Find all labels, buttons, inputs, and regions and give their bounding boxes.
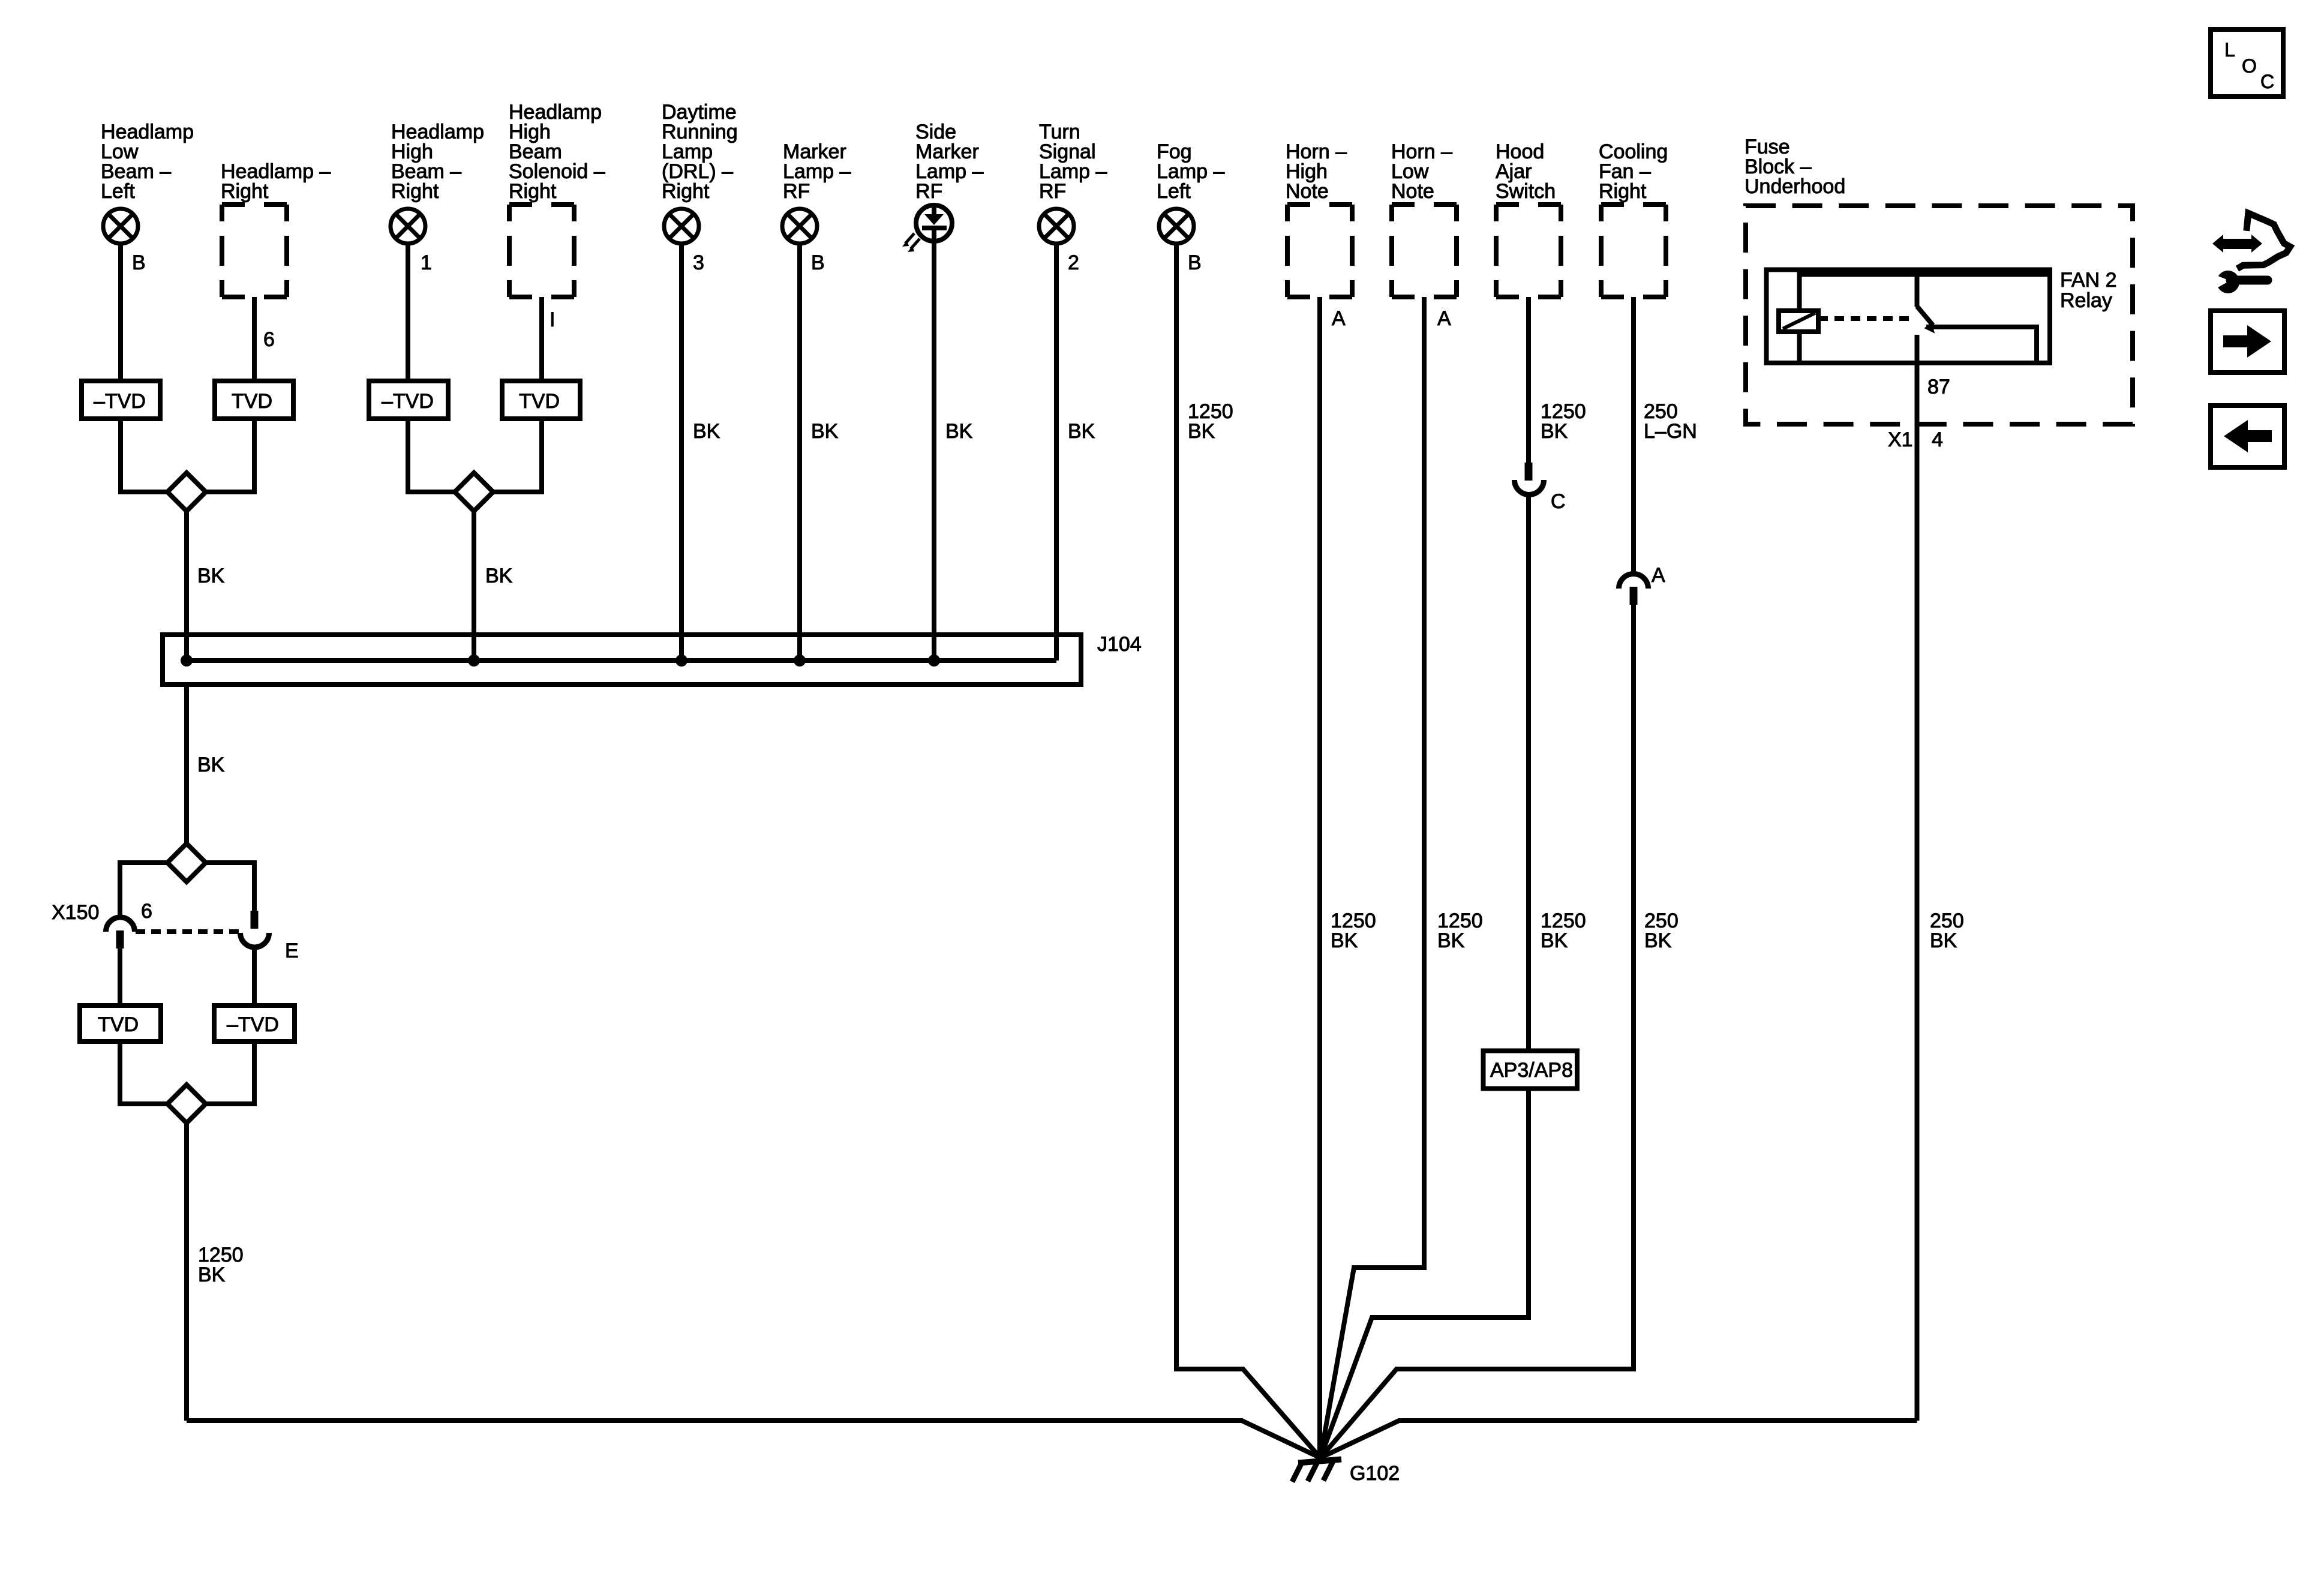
svg-text:C: C [2260, 71, 2274, 92]
wire: diamond 3 left branch to X150 [120, 863, 167, 917]
wire: TVD2 to merge diamond 1 [206, 419, 254, 492]
connector box: Headlamp High Beam Solenoid - Right (dashed) [509, 205, 574, 297]
svg-text:A: A [1332, 307, 1346, 330]
wire label 1250 BK (horn low) [1437, 909, 1483, 952]
wire: high beam to TVD [406, 244, 410, 381]
label: Headlamp High Beam - Right [391, 121, 484, 203]
wire: headlamp low beam to TVD [118, 244, 123, 381]
svg-text:BK: BK [1437, 929, 1465, 952]
svg-text:Left: Left [1157, 180, 1191, 203]
svg-text:L: L [2224, 39, 2235, 61]
wire: headlamp right to TVD [252, 297, 257, 381]
lamp: Fog Lamp - Left [1159, 209, 1194, 244]
connector box: Headlamp - Right (dashed) [222, 205, 287, 297]
svg-text:BK: BK [1331, 929, 1358, 952]
svg-text:Relay: Relay [2060, 289, 2112, 312]
connector X150 dashed mating line [136, 929, 240, 934]
svg-text:O: O [2242, 55, 2257, 77]
wire label 1250 BK (hood ajar upper) [1541, 400, 1586, 443]
svg-text:C: C [1551, 490, 1566, 513]
svg-text:BK: BK [1068, 420, 1095, 443]
svg-text:TVD: TVD [232, 390, 272, 413]
splice box AP3/AP8 [1484, 1051, 1578, 1089]
label: Headlamp High Beam Solenoid - Right [509, 101, 605, 203]
svg-text:B: B [132, 251, 146, 274]
svg-text:–TVD: –TVD [227, 1013, 279, 1036]
svg-text:A: A [1652, 564, 1665, 587]
wire: TVD1 to merge diamond 1 [121, 419, 167, 492]
svg-text:BK: BK [197, 754, 225, 776]
label: Fog Lamp - Left [1157, 140, 1224, 203]
svg-text:Note: Note [1391, 180, 1434, 203]
wire: diamond 2 to J104 [472, 511, 476, 661]
wire: relay pin 87 down to ground run [1915, 335, 1920, 1421]
wire: bottom ground run left segment [187, 1421, 1320, 1458]
svg-text:Underhood: Underhood [1744, 175, 1845, 198]
wire: X150 left to lower TVD [118, 948, 122, 1005]
wire: bottom ground run right segment [1320, 1421, 1917, 1458]
connector box: Horn - High Note (dashed) [1287, 205, 1352, 297]
inline connector socket arc (cooling fan) [1619, 574, 1649, 589]
svg-text:RF: RF [783, 180, 810, 203]
relay actuation dashed link [1818, 316, 1912, 321]
svg-text:–TVD: –TVD [94, 390, 146, 413]
svg-text:J104: J104 [1097, 633, 1142, 656]
wire: J104 to diamond 3 [184, 685, 189, 843]
label: Headlamp Low Beam - Left [101, 121, 194, 203]
svg-text:Right: Right [662, 180, 710, 203]
wire: side marker to J104 [932, 241, 936, 661]
wire label 1250 BK (left trunk) [198, 1244, 244, 1286]
TVD box (TVD) solenoid [502, 381, 580, 419]
svg-text:Note: Note [1286, 180, 1329, 203]
label: Daytime Running Lamp (DRL) - Right [662, 101, 738, 203]
svg-text:87: 87 [1927, 376, 1950, 398]
wire: solenoid to TVD [539, 297, 544, 381]
connector box: Cooling Fan - Right (dashed) [1601, 205, 1666, 297]
svg-text:1: 1 [421, 251, 432, 274]
svg-text:6: 6 [141, 900, 152, 923]
svg-text:B: B [1188, 251, 1202, 274]
relay FAN 2 outer box [1767, 270, 2050, 364]
svg-text:2: 2 [1068, 251, 1079, 274]
wire: turn signal to J104 bus [1054, 244, 1059, 661]
svg-text:I: I [550, 308, 555, 331]
fuse block underhood dashed outline [1746, 206, 2133, 424]
splice pack J104 bus bar [187, 658, 1056, 663]
TVD box (-TVD) lower right [214, 1005, 295, 1041]
relay coil box [1779, 311, 1818, 332]
connector box: Horn - Low Note (dashed) [1392, 205, 1457, 297]
wire: horn low note to G102 [1320, 297, 1424, 1458]
inline connector socket arc (hood ajar) [1515, 480, 1544, 495]
inline connector pin (cooling fan) [1630, 587, 1638, 605]
wire label 1250 BK (horn high) [1331, 909, 1376, 952]
svg-text:RF: RF [1039, 180, 1066, 203]
svg-text:BK: BK [693, 420, 720, 443]
icon: forward arrow box [2211, 311, 2284, 373]
wire: TVD4 to merge diamond 2 [493, 419, 542, 492]
svg-text:AP3/AP8: AP3/AP8 [1490, 1059, 1573, 1082]
relay inner top line [1800, 272, 2047, 277]
label: Marker Lamp - RF [783, 140, 851, 203]
svg-text:FAN 2: FAN 2 [2060, 269, 2116, 292]
svg-text:G102: G102 [1350, 1462, 1400, 1485]
relay switch blade arrowhead [1924, 322, 1935, 334]
lamp: Headlamp High Beam - Right [391, 209, 425, 244]
wire: horn high note to G102 [1317, 297, 1322, 1458]
label: Horn - Low Note [1391, 140, 1452, 203]
svg-text:X1: X1 [1888, 428, 1913, 451]
icon: back arrow box [2211, 406, 2284, 467]
svg-text:BK: BK [485, 565, 513, 587]
icon: harness routing with wrench [2212, 213, 2290, 293]
svg-text:L–GN: L–GN [1644, 420, 1697, 443]
relay coil diagonal [1783, 313, 1815, 329]
wire: marker lamp to J104 [797, 244, 802, 661]
label FAN 2 Relay [2060, 269, 2116, 312]
junction dot (marker) [794, 655, 806, 667]
connector box: Hood Ajar Switch (dashed) [1496, 205, 1561, 297]
svg-text:Left: Left [101, 180, 135, 203]
junction dot (DRL) [675, 655, 687, 667]
svg-text:BK: BK [1541, 929, 1568, 952]
wire: X150 right to lower TVD [252, 947, 257, 1005]
merge diamond 2 (high beam pair) [455, 473, 493, 511]
svg-text:TVD: TVD [519, 390, 560, 413]
wire: diamond 4 down to ground run [184, 1123, 189, 1421]
svg-text:BK: BK [197, 565, 225, 587]
connector X150 left: pin [116, 930, 124, 948]
svg-text:Right: Right [221, 180, 269, 203]
svg-text:B: B [811, 251, 825, 274]
junction dot (trunk 2) [468, 655, 480, 667]
svg-text:E: E [285, 939, 299, 962]
merge diamond 4 [167, 1085, 206, 1123]
label: Hood Ajar Switch [1496, 140, 1556, 203]
relay contact line (pin 87) [1926, 327, 2037, 363]
label: Headlamp - Right [221, 160, 331, 203]
svg-text:TVD: TVD [98, 1013, 139, 1036]
svg-text:Right: Right [1599, 180, 1647, 203]
wire: diamond 1 to J104 [184, 511, 189, 661]
merge diamond 1 (headlamp pair) [167, 473, 206, 511]
splice pack J104 outer box [163, 635, 1081, 685]
junction dot (trunk 1) [181, 655, 193, 667]
ground G102 symbol [1292, 1460, 1341, 1482]
label: Cooling Fan - Right [1599, 140, 1668, 203]
lamp: Daytime Running Lamp (DRL) - Right [664, 209, 699, 244]
svg-text:6: 6 [263, 328, 275, 351]
wire label 1250 BK (fog lamp) [1188, 400, 1233, 443]
inline connector pin (hood ajar) [1525, 463, 1533, 481]
LED lamp: Side Marker Lamp - RF [916, 205, 952, 241]
svg-text:Switch: Switch [1496, 180, 1556, 203]
wire: TVD3 to merge diamond 2 [408, 419, 455, 492]
lamp: Turn Signal Lamp - RF [1039, 209, 1074, 244]
wire: hood ajar switch upper segment [1526, 297, 1531, 463]
svg-text:Right: Right [391, 180, 439, 203]
wire label 250 L-GN (cooling fan upper) [1644, 400, 1697, 443]
split diamond 3 [167, 843, 206, 882]
connector X150 left: socket arc [106, 917, 135, 932]
svg-text:A: A [1437, 307, 1451, 330]
TVD box (-TVD) headlamp low beam [82, 381, 160, 419]
TVD box (-TVD) high beam [369, 381, 448, 419]
relay switch pole vertical [1915, 270, 1920, 307]
wire label 1250 BK (hood ajar lower) [1541, 909, 1586, 952]
relay coil feed line (pin 85/86 vertical) [1797, 272, 1802, 363]
lamp: Marker Lamp - RF [782, 209, 817, 244]
wire: cooling fan upper segment [1631, 297, 1636, 575]
LOC reference box [2211, 29, 2283, 97]
svg-text:BK: BK [945, 420, 973, 443]
label: Turn Signal Lamp - RF [1039, 121, 1107, 203]
svg-text:BK: BK [1541, 420, 1568, 443]
wire label 250 BK (cooling fan lower) [1644, 909, 1679, 952]
connector X150 right: socket arc [241, 933, 269, 947]
wire: lower TVD left to diamond 4 [120, 1041, 167, 1104]
label: Side Marker Lamp - RF [915, 121, 983, 203]
label: Fuse Block - Underhood [1744, 136, 1845, 198]
svg-text:RF: RF [915, 180, 942, 203]
svg-text:3: 3 [693, 251, 704, 274]
wire label 250 BK (relay output) [1930, 909, 1964, 952]
TVD box (TVD) headlamp right [215, 381, 293, 419]
relay switch blade [1917, 307, 1933, 326]
LED arrows (side marker) [902, 233, 920, 252]
svg-text:4: 4 [1932, 428, 1943, 451]
wire: hood ajar switch lower segment to G102 [1320, 493, 1529, 1458]
svg-text:BK: BK [1930, 929, 1957, 952]
connector X150 right: pin [251, 911, 259, 929]
svg-text:–TVD: –TVD [382, 390, 434, 413]
svg-text:BK: BK [1644, 929, 1672, 952]
wire: diamond 3 right branch to X150 [206, 863, 254, 911]
wire: cooling fan lower segment to G102 [1320, 605, 1634, 1458]
wire: DRL to J104 [679, 244, 684, 661]
lamp: Headlamp Low Beam - Left [103, 209, 138, 244]
wire: lower TVD right to diamond 4 [206, 1041, 254, 1104]
svg-text:Right: Right [509, 180, 557, 203]
svg-text:BK: BK [811, 420, 839, 443]
svg-text:X150: X150 [52, 901, 99, 924]
label: Horn - High Note [1286, 140, 1347, 203]
svg-text:BK: BK [198, 1263, 226, 1286]
TVD box (TVD) lower left [80, 1005, 161, 1041]
junction dot (side marker) [928, 655, 940, 667]
wire: fog lamp down to G102 [1176, 244, 1320, 1458]
svg-text:BK: BK [1188, 420, 1215, 443]
